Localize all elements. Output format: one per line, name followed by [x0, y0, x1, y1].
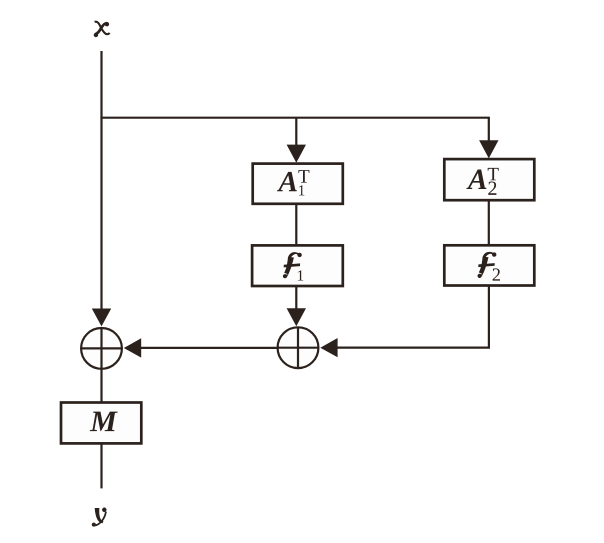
node x (input label) — [94, 22, 110, 37]
arrowhead into A1 — [287, 145, 306, 163]
block M — [61, 403, 141, 444]
wire: A1 to f1 — [295, 204, 297, 246]
wire: top horizontal bus — [100, 117, 490, 119]
block A2T — [444, 159, 534, 200]
arrowhead into left adder right — [124, 338, 141, 357]
label f2 — [478, 252, 501, 281]
wire: left adder to block M — [100, 369, 102, 402]
label A2T — [466, 168, 498, 195]
wire: x down to left adder — [100, 51, 102, 312]
node y (output label) — [92, 508, 107, 527]
adder: middle sum junction — [278, 327, 319, 368]
label A1T — [277, 170, 309, 195]
arrowhead into middle adder right — [320, 338, 337, 357]
arrowhead into A2 — [479, 140, 498, 158]
block A1T — [253, 164, 343, 204]
wire: bus corner down to A2 — [488, 118, 490, 144]
wire: middle adder to left adder — [140, 347, 278, 349]
wire: block M to output — [100, 443, 102, 488]
wire: f1 down to middle adder — [295, 286, 297, 312]
block f2 — [444, 245, 534, 285]
wire: A2 to f2 — [488, 200, 490, 245]
arrowhead into left adder top — [92, 309, 111, 327]
wire: branch down to A1 — [295, 118, 297, 148]
adder: left sum junction — [81, 328, 122, 369]
label M — [90, 412, 118, 432]
arrowhead into middle adder top — [287, 308, 306, 326]
block f1 — [252, 245, 343, 286]
wire: f2 down and left into middle adder — [336, 286, 489, 348]
label f1 — [283, 252, 303, 280]
